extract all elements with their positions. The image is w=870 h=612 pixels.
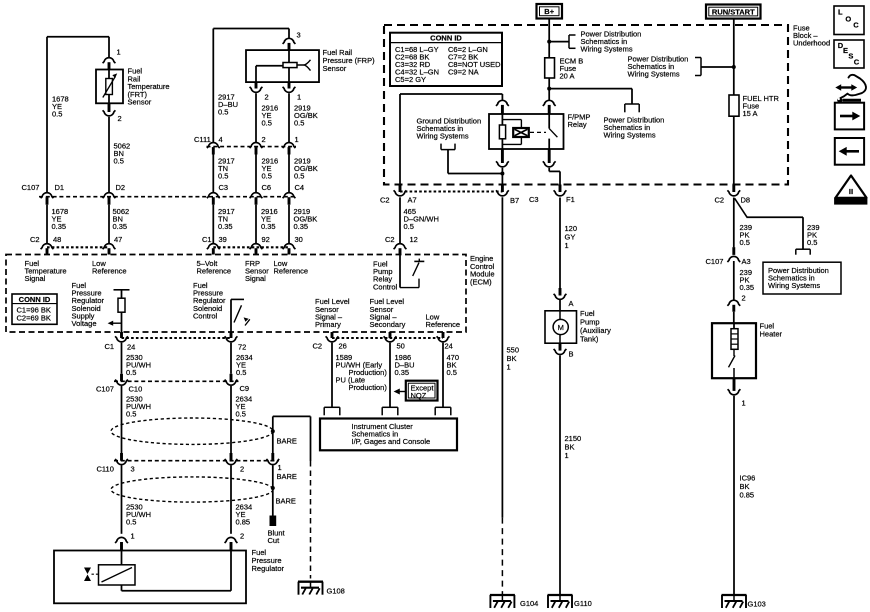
wire 550 BK [501,197,503,517]
wire 550 BK dashed to G104 [501,518,503,595]
wire shield below C110 [272,465,274,516]
label CONN ID title [430,34,462,43]
connector C110 pin 2 [225,453,238,465]
svg-text:0.5: 0.5 [114,157,124,166]
value label 2634 YE 0.5 b [236,395,253,419]
svg-text:0.5: 0.5 [262,172,272,181]
pin label C4 [295,183,305,192]
svg-text:C2: C2 [385,235,395,244]
value label 239 PK 0.5 left [740,223,753,247]
connector line C110 [114,460,279,462]
connector ECM C1 pin 30 [283,244,296,255]
connector ECM C2 pin 47 [103,244,116,255]
wire 1589 PU/WH [331,343,333,408]
svg-text:C6: C6 [262,183,272,192]
connector line C107 [39,196,296,198]
value label 465 D-GN/WH 0.5 [404,207,439,231]
pin label C3 [219,183,229,192]
pin 1 label FRP [297,93,301,102]
label C2 at D8 [715,196,725,205]
value label 2919 OG/BK 0.5 mid [294,157,318,181]
label Power Distribution Schematics 1 [581,29,642,53]
value label 1678 YE 0.5 [52,95,69,119]
svg-text:Heater: Heater [760,330,783,339]
wire RUN/START feed [733,19,735,95]
svg-text:20 A: 20 A [560,72,575,81]
svg-text:B+: B+ [544,7,554,16]
value label IC96 BK 0.85 [740,474,756,500]
connector C107 pin C3 [207,193,220,205]
svg-text:Reference: Reference [92,267,127,276]
value label 2919 OG/BK 0.35 [294,207,318,231]
svg-text:Production): Production) [349,383,388,392]
svg-text:BARE: BARE [276,497,296,506]
svg-text:0.5: 0.5 [404,222,414,231]
svg-text:C2: C2 [380,196,390,205]
pin label 50 [397,342,405,351]
svg-text:0.85: 0.85 [740,491,755,500]
label Instrument Cluster Schematics [352,422,431,446]
label Fuel Pump (Auxiliary Tank) [580,309,611,344]
label Ground Distribution Schematics [417,117,482,141]
shield drain dashed to G108 [310,461,312,579]
bracket power distribution 4 [796,249,810,255]
ECM CONN ID table [12,294,57,324]
relay coil resistor [499,125,505,139]
connector fuel pressure regulator pin 1 [115,537,128,550]
label Power Distribution Schematics 4 [768,266,829,290]
label C111 [194,135,211,144]
wire 2916 YE 0.35 seg [255,205,257,244]
relay coil wire [501,114,503,149]
value label 120 GY 1 [565,224,578,250]
motor symbol M [553,319,568,334]
svg-text:0.5: 0.5 [294,119,304,128]
svg-text:C107: C107 [22,183,40,192]
wire 1678 YE 0.35 seg [46,205,48,244]
svg-text:Relay: Relay [568,120,587,129]
wire inside FRP sensor [256,50,289,82]
icon LOC box [834,6,864,35]
twisted pair shield ellipse 2 [111,477,273,502]
svg-text:1: 1 [507,363,511,372]
svg-text:1: 1 [565,451,569,460]
label Power Distribution Schematics 2 [604,116,665,140]
value label 239 PK 0.35 [740,268,755,292]
svg-text:Sensor: Sensor [128,98,152,107]
value label 239 PK 0.5 right [807,223,820,247]
ECM supply voltage arrow [108,321,122,326]
svg-text:50: 50 [397,342,405,351]
svg-text:Wiring Systems: Wiring Systems [604,131,656,140]
label C1 ECM connector [202,235,212,244]
connector relay pin 87 out [496,149,509,167]
pin label A7 [408,196,417,205]
label C2 ECM connector [30,235,40,244]
pin label 1 heater [742,399,746,408]
svg-text:S: S [848,52,853,61]
svg-text:A7: A7 [408,196,417,205]
label C110 [97,465,114,474]
svg-text:G103: G103 [748,600,766,609]
svg-text:1: 1 [278,463,282,472]
svg-text:C2: C2 [715,196,725,205]
label G103 [748,600,766,609]
label BARE 1 [277,437,297,446]
label Except NQZ [411,384,435,400]
svg-text:CONN ID: CONN ID [430,34,462,43]
relay switch [549,114,557,149]
svg-text:1: 1 [295,135,299,144]
icon back arrow box [835,138,864,165]
svg-text:G104: G104 [520,599,538,608]
svg-text:1: 1 [117,48,121,57]
svg-text:C9=2 NA: C9=2 NA [448,68,479,77]
wire relay30 jog [549,168,560,185]
wire 120 GY [559,198,561,289]
svg-text:72: 72 [238,343,246,352]
svg-text:1: 1 [565,241,569,250]
svg-text:Cut: Cut [268,536,281,545]
fuse ECM B 20A [545,58,555,78]
svg-text:C2: C2 [313,342,323,351]
svg-text:Wiring Systems: Wiring Systems [768,281,820,290]
svg-text:Voltage: Voltage [72,319,97,328]
svg-text:2: 2 [118,114,122,123]
pin label 2 fpr [240,532,244,541]
pin 2 label FRP [265,93,269,102]
ECM CONN ID separator [12,303,57,305]
pin label 2 heater [742,294,746,303]
svg-text:0.5: 0.5 [236,368,246,377]
arrow except NQZ [394,389,406,395]
wire 2530 PU/WH a [121,343,123,374]
pin label D2 [116,183,126,192]
svg-text:Sensor: Sensor [323,64,347,73]
pin label B pump [569,350,574,359]
label C107 at A3 [706,257,724,266]
svg-text:Regulator: Regulator [252,564,285,573]
connector link C2 26-50-24 [332,337,443,339]
svg-text:II: II [849,187,853,196]
wire FRT sensor pin 1 drop [108,37,110,58]
svg-text:0.5: 0.5 [218,108,228,117]
connector C107 pin C6 [250,193,263,205]
fpr valve symbol [84,568,91,582]
connector C110 pin 3 [115,453,128,465]
pin label F1 [566,195,575,204]
connector C107 pin C9 [225,374,238,385]
svg-text:47: 47 [114,235,122,244]
wire fuel htr fuse down [733,116,735,185]
svg-text:1: 1 [131,532,135,541]
CONN ID title separator [390,42,502,44]
wire 239 PK 0.35 [733,261,735,300]
svg-text:C2: C2 [30,235,40,244]
svg-text:1: 1 [742,399,746,408]
connector C110 pin 1 [266,453,279,465]
wire 2530 PU/WH b [121,386,123,453]
wire fpr internal [122,551,232,591]
svg-text:(ECM): (ECM) [470,277,492,286]
svg-text:Signal: Signal [245,274,266,283]
label Low Reference 3 [426,313,461,330]
pin label C9 [240,384,250,393]
connector link C2 pins [47,246,109,248]
value label 2530 PU/WH 0.5 a [126,353,151,377]
wire 2917 D-BU top run [213,29,289,143]
svg-text:C2=69 BK: C2=69 BK [17,314,51,323]
svg-text:C: C [853,21,859,30]
wire 239 PK [733,198,735,248]
label C107 bottom [96,384,114,393]
blunt cut terminal [270,516,276,526]
label C107 [22,183,40,192]
fuel pump box [545,311,577,343]
wire 2919 OG/BK 0.35 seg [288,205,290,244]
label BARE 2 [277,472,297,481]
pin label 47 [114,235,122,244]
label Low Reference 2 [274,259,309,276]
svg-text:0.5: 0.5 [236,410,246,419]
connector ECM C1 pin 39 [207,244,220,255]
svg-text:92: 92 [262,235,270,244]
wire into fuel heater [733,312,735,324]
bracket ground distribution [441,144,455,150]
svg-text:0.35: 0.35 [395,368,410,377]
svg-text:0.5: 0.5 [52,110,62,119]
relay dashed actuator link [530,131,546,133]
svg-text:L: L [838,7,843,16]
shield drain to G108 solid [310,416,312,461]
wire B+ feed [548,19,550,58]
svg-text:A: A [569,299,574,308]
ECM solenoid control driver [231,299,250,332]
svg-text:C1: C1 [202,235,212,244]
label conn id col1 [395,45,439,84]
icon forward arrow box [835,103,864,130]
wire 2916 YE mid [255,155,257,193]
svg-text:0.5: 0.5 [294,172,304,181]
pin label A pump [569,299,574,308]
icon OBD II warning triangle [835,176,868,206]
connector link C1 pins [213,246,289,248]
label BARE 3 [276,497,296,506]
icon repair double arrow [835,75,866,98]
svg-text:0.5: 0.5 [218,172,228,181]
value label 470 BK 0.5 [447,353,460,377]
svg-text:0.5: 0.5 [126,410,136,419]
svg-text:C5=2 GY: C5=2 GY [395,75,426,84]
svg-text:Signal: Signal [25,274,46,283]
label Fuel Pressure Regulator Solenoid Control [193,281,226,320]
label C3 at F1 [529,195,539,204]
label ECM conn id lines [17,305,51,322]
label Fuel Temperature Signal [25,259,67,283]
heater element [731,323,738,349]
connector fuse block C2 pin A7 [394,185,407,196]
connector ECM C1 pin 72 [225,332,238,342]
node junction to power distribution 2 [547,87,551,91]
svg-text:Wiring Systems: Wiring Systems [417,132,469,141]
svg-text:BARE: BARE [277,437,297,446]
wire relay feed horizontal [400,94,502,185]
connector relay pin 30 out [543,149,556,167]
wire below ECM B fuse [548,78,550,101]
label Fuel Pressure Regulator [252,548,285,573]
svg-text:Wiring Systems: Wiring Systems [628,70,680,79]
svg-text:2: 2 [262,135,266,144]
wire branch power dist 3 [701,66,734,68]
connector link A7 B7 [400,190,502,192]
connector C111 pin 1 [283,142,296,154]
connector fuse block C3 pin F1 [554,185,567,196]
B+ power feed box [537,4,563,19]
svg-text:Control: Control [373,282,398,291]
relay coil loop [502,120,521,145]
label F/PMP Relay [568,112,591,129]
ECM solenoid supply symbol [114,290,130,332]
node junction run/start to power dist 3 [732,65,736,69]
connector link C1 24-72 [122,337,232,339]
fuel heater box [712,323,756,378]
wire 2919 OG/BK mid [288,155,290,193]
node shield junction 1 [271,429,275,433]
svg-text:0.5: 0.5 [126,368,136,377]
svg-text:Control: Control [193,311,218,320]
twisted pair shield ellipse 1 [111,418,273,444]
svg-text:M: M [558,323,564,332]
label Power Distribution Schematics 3 [628,55,689,79]
connector FRP sensor pin 1 [283,82,296,92]
except NQZ box [406,381,438,401]
connector line C107 bottom [114,380,239,382]
wire 5062 BN 0.35 seg [108,205,110,244]
svg-text:C1: C1 [105,342,115,351]
label Engine Control Module (ECM) [470,254,495,286]
connector fuel pump pin B [554,343,567,354]
svg-text:0.5: 0.5 [447,368,457,377]
svg-text:0.5: 0.5 [807,238,817,247]
value label 2634 YE 0.5 a [236,353,253,377]
fuse FUEL HTR 15A [729,95,739,116]
svg-text:24: 24 [127,343,135,352]
svg-text:C3: C3 [219,183,229,192]
connector ECM C1 pin 24 [115,332,128,342]
wire 2634 YE a [230,343,232,374]
label C2 bottom [313,342,323,351]
pin label 1 fpr [131,532,135,541]
wire 2917 TN [212,155,214,193]
label C2 at A7 [380,196,390,205]
svg-text:0.35: 0.35 [261,222,276,231]
svg-text:24: 24 [445,342,453,351]
bracket power distribution 3 [695,58,701,76]
node junction to power distribution [547,40,551,44]
RUN/START feed box [706,5,761,19]
connector C107 pin C10 [115,374,128,385]
wire FRP pin 3 drop [288,29,290,39]
connector fuel pressure regulator pin 2 [225,537,238,550]
value label 1589 PU/WH [336,353,388,392]
relay coil X-box [513,128,529,137]
connector FRT sensor pin 2 [103,103,116,116]
FRP sensor box [246,50,319,82]
wire 5062 BN sensor to C107 [108,117,110,192]
wire 2916 YE pin2 to C111 [255,93,257,142]
pin label 12 [410,235,418,244]
wire 2634 YE 085 [230,465,232,533]
svg-text:G108: G108 [327,587,345,596]
wire IC96 BK [733,396,735,595]
instrument cluster box [320,419,457,451]
pin 2 label FRT [118,114,122,123]
pin label 72 [238,343,246,352]
pin label C10 [129,384,143,393]
ground G108 [298,582,323,595]
wire 465 D-GN/WH [399,197,401,243]
svg-text:0.35: 0.35 [294,222,309,231]
label C2 at pin 12 [385,235,395,244]
svg-text:O: O [845,14,851,23]
label RUN/START [712,8,755,17]
label Fuel Rail Pressure (FRP) Sensor [323,48,376,73]
value label 2916 YE 0.5 [262,104,279,128]
svg-text:0.35: 0.35 [52,222,67,231]
label C1 bottom [105,342,115,351]
svg-text:G110: G110 [574,599,592,608]
label Fuel Pressure Regulator Solenoid Supply Voltage [72,281,105,328]
pin label 26 [339,342,347,351]
value label 5062 BN 0.35 [113,207,130,231]
svg-text:Tank): Tank) [580,334,599,343]
fpr solenoid element [99,565,136,585]
connector fuel pump pin A [554,288,567,311]
svg-text:30: 30 [295,235,303,244]
svg-text:E: E [843,46,848,55]
pin label 30 [295,235,303,244]
label conn id col2 [448,45,501,77]
svg-text:D8: D8 [741,196,751,205]
pin label 2 c110 [240,465,244,474]
svg-text:C107: C107 [96,384,114,393]
pin label 4 [219,135,223,144]
connector ECM C2 pin 48 [41,244,54,255]
svg-text:0.85: 0.85 [236,518,251,527]
ECM solenoid supply resistor [118,298,125,312]
pin label 1 c110 [278,463,282,472]
ECM driver fuel pump relay control [400,255,424,288]
svg-text:NQZ: NQZ [411,391,427,400]
pin label 48 [53,235,61,244]
label G108 [327,587,345,596]
pin 3 label FRP [297,31,301,40]
label Fuel Heater [760,322,783,339]
value label 2530 PU/WH 0.5 c [126,503,151,527]
wire branch to power distribution 2 [549,89,632,104]
label G104 [520,599,538,608]
wire branch to power distribution 1 [549,41,569,43]
svg-text:CONN ID: CONN ID [19,295,51,304]
bracket instrument cluster 1 [324,407,340,415]
wire relay87 down [501,168,503,185]
connector C111 pin 4 [207,142,220,154]
thermistor element FRT [103,70,117,104]
svg-text:F1: F1 [566,195,575,204]
ground G104 [490,595,515,608]
svg-text:Reference: Reference [197,267,232,276]
label Blunt Cut [268,529,286,546]
